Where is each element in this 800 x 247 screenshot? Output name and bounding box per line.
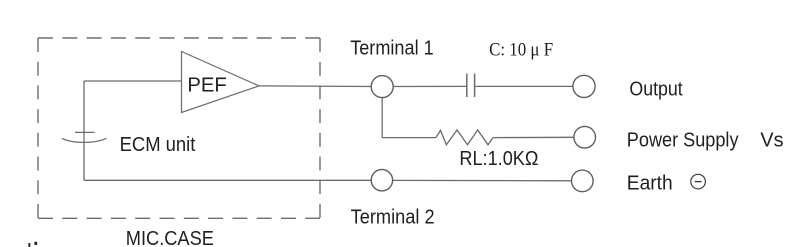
svg-text:Terminal 1: Terminal 1 bbox=[350, 37, 434, 59]
svg-text:ECM unit: ECM unit bbox=[120, 134, 196, 156]
svg-text:C: 10 μ F: C: 10 μ F bbox=[489, 41, 553, 61]
svg-text:Terminal 2: Terminal 2 bbox=[351, 206, 435, 228]
svg-text:RL:1.0KΩ: RL:1.0KΩ bbox=[459, 148, 538, 170]
svg-text:Earth: Earth bbox=[627, 172, 673, 194]
svg-text:Power Supply: Power Supply bbox=[627, 129, 739, 151]
svg-text:MIC.CASE: MIC.CASE bbox=[126, 228, 214, 247]
svg-text:Vs: Vs bbox=[760, 129, 783, 151]
svg-text:PEF: PEF bbox=[187, 74, 226, 96]
svg-text:Output: Output bbox=[629, 78, 683, 100]
